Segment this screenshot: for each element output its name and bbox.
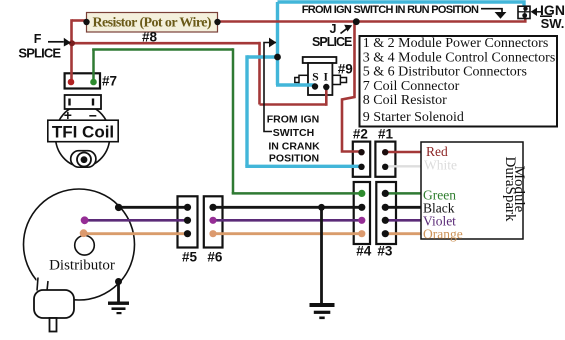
svg-text:I: I [324,72,329,84]
svg-text:TFI Coil: TFI Coil [52,123,114,142]
svg-text:#2: #2 [353,127,368,142]
svg-text:Module: Module [511,166,527,213]
svg-text:#8: #8 [142,29,158,44]
svg-text:FROM IGN SWITCH IN RUN POSITIO: FROM IGN SWITCH IN RUN POSITION [302,4,479,16]
svg-text:Resistor (Pot or Wire): Resistor (Pot or Wire) [93,16,212,31]
svg-text:IN CRANK: IN CRANK [268,140,320,152]
svg-text:8 Coil Resistor: 8 Coil Resistor [363,93,447,108]
svg-text:5 & 6 Distributor Connectors: 5 & 6 Distributor Connectors [363,65,527,80]
svg-text:Distributor: Distributor [49,257,115,273]
svg-text:9 Starter Solenoid: 9 Starter Solenoid [363,110,464,125]
svg-text:F: F [34,32,42,46]
svg-text:SPLICE: SPLICE [312,35,352,49]
svg-text:#1: #1 [378,127,394,142]
svg-text:#9: #9 [338,61,353,76]
svg-text:White: White [424,158,457,173]
svg-text:SW.: SW. [541,16,565,31]
svg-text:#4: #4 [356,244,372,259]
svg-text:7 Coil Connector: 7 Coil Connector [363,79,460,94]
svg-text:S: S [312,72,318,84]
svg-text:#7: #7 [102,73,117,88]
svg-text:FROM IGN: FROM IGN [267,114,320,126]
svg-text:1 & 2 Module Power Connectors: 1 & 2 Module Power Connectors [363,36,548,51]
svg-text:#3: #3 [377,244,393,259]
svg-text:SPLICE: SPLICE [18,45,61,60]
svg-text:POSITION: POSITION [269,153,319,165]
svg-text:SWITCH: SWITCH [273,127,314,139]
svg-text:Orange: Orange [423,227,463,242]
svg-text:J: J [330,22,337,36]
svg-text:#6: #6 [207,250,223,265]
svg-text:#5: #5 [182,250,198,265]
svg-text:3 & 4 Module Control Connector: 3 & 4 Module Control Connectors [363,50,556,65]
